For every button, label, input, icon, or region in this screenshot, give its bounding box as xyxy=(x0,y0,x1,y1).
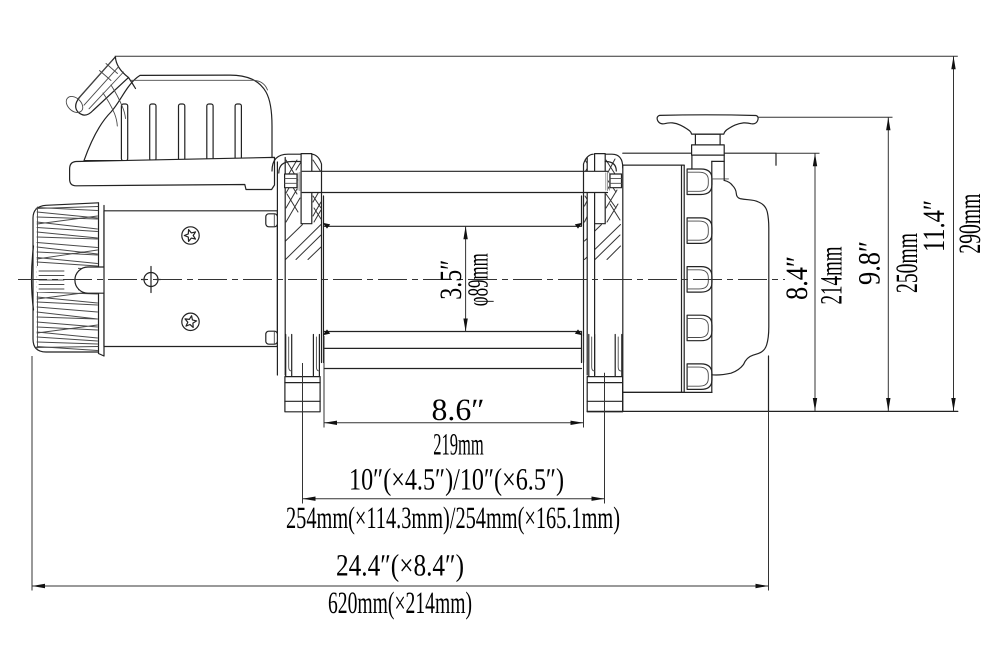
right side plate xyxy=(587,157,594,375)
clutch T-handle neck xyxy=(695,134,720,145)
gearbox cover left edge xyxy=(711,161,713,392)
dim 10in extension lines xyxy=(303,363,605,504)
gearbox lobe 3 xyxy=(687,267,712,293)
center line xyxy=(18,279,785,281)
end cap vent comb xyxy=(37,266,78,292)
left bearing post xyxy=(301,154,312,224)
dim 9.8in line xyxy=(886,117,890,411)
motor end cap outline xyxy=(33,203,99,352)
drum corner arrow bottom-right xyxy=(575,329,583,335)
dim 10in line xyxy=(303,497,605,501)
left end plate hatch xyxy=(286,157,322,260)
left lower rod tab xyxy=(266,331,278,344)
svg-text:254mm(×114.3mm)/254mm(×165.1mm: 254mm(×114.3mm)/254mm(×165.1mm) xyxy=(286,500,620,535)
right drum flange xyxy=(582,154,594,362)
motor housing xyxy=(104,211,277,347)
torx screw lower xyxy=(182,313,199,330)
drum corner arrow top-right xyxy=(575,223,583,229)
dim 3.5in/φ89mm line xyxy=(463,226,467,331)
clutch T-handle stem xyxy=(692,155,724,180)
frame bottom line xyxy=(587,410,958,412)
end cap right rim xyxy=(99,203,105,356)
control box slot 3 xyxy=(179,104,185,161)
end cap bullet tab xyxy=(75,267,105,293)
dim 9.8in extension line xyxy=(758,116,893,118)
center mark xyxy=(142,267,161,293)
right foot block xyxy=(587,377,622,412)
lower cross bar xyxy=(324,368,582,370)
control box slot 2 xyxy=(150,104,156,161)
control box slot 5 xyxy=(235,104,241,161)
right legs xyxy=(589,335,622,377)
gearbox lobe 2 xyxy=(687,218,712,244)
left bracket strap xyxy=(272,154,301,173)
svg-text:11.4″: 11.4″ xyxy=(916,200,951,252)
drum barrel xyxy=(324,226,582,331)
gearbox lobe 5 xyxy=(687,364,712,390)
clutch handle lever xyxy=(63,57,135,126)
left drum flange xyxy=(312,154,324,362)
dim 8.4in line xyxy=(813,153,817,411)
control box dome xyxy=(84,75,272,161)
right tie-rod nut xyxy=(610,174,622,188)
dim 11.4in extension line xyxy=(115,55,958,57)
end cap left bulge xyxy=(32,246,34,310)
gearbox top plate xyxy=(623,153,776,165)
right bearing post xyxy=(595,154,606,224)
svg-text:8.6″: 8.6″ xyxy=(432,392,485,427)
left legs xyxy=(286,335,320,377)
gearbox bottom plate xyxy=(623,356,769,411)
dim 8.4in extension line xyxy=(776,152,820,154)
clutch T-handle bar xyxy=(657,115,758,134)
svg-text:219mm: 219mm xyxy=(433,427,484,462)
right end plate hatch xyxy=(585,159,621,260)
left foot block xyxy=(285,377,320,412)
drum corner arrow bottom-left xyxy=(323,329,331,335)
gearbox lobe inner lines xyxy=(687,172,708,386)
lower tie rod xyxy=(324,347,582,349)
upper tie rod xyxy=(302,171,607,192)
left side plate xyxy=(277,157,285,375)
clutch T-handle collar xyxy=(692,145,725,155)
torx screw upper xyxy=(182,227,199,244)
end cap top band xyxy=(36,207,98,209)
dim 8.6in extension lines xyxy=(324,336,584,428)
gearbox lobe 4 xyxy=(687,315,712,341)
dim 8.6in line xyxy=(324,421,584,425)
dim 24.4in line xyxy=(32,584,769,588)
gearbox cover outline xyxy=(712,161,769,375)
svg-text:214mm: 214mm xyxy=(814,247,849,305)
svg-text:290mm: 290mm xyxy=(952,194,987,254)
dim 24.4in extension lines xyxy=(32,356,769,591)
control box slot 4 xyxy=(207,104,213,161)
left tie-rod nut xyxy=(285,174,297,188)
svg-text:620mm(×214mm): 620mm(×214mm) xyxy=(328,585,472,620)
svg-text:9.8″: 9.8″ xyxy=(852,241,887,285)
gearbox cover step line xyxy=(712,178,729,180)
right bracket strap xyxy=(605,154,623,171)
svg-text:24.4″(×8.4″): 24.4″(×8.4″) xyxy=(336,548,464,583)
control box slot 1 xyxy=(121,104,127,161)
svg-text:φ89mm: φ89mm xyxy=(463,253,495,306)
gearbox core xyxy=(623,165,684,392)
right tie-rod thread xyxy=(606,172,610,191)
gearbox lobe 1 xyxy=(687,169,712,195)
svg-text:8.4″: 8.4″ xyxy=(779,256,814,300)
drum corner arrow top-left xyxy=(323,223,331,229)
left tie-rod thread xyxy=(298,172,302,191)
motor end cap knurl hatch xyxy=(37,208,98,351)
left upper rod tab xyxy=(266,214,278,227)
dim 11.4in line xyxy=(951,56,955,411)
control box base plate xyxy=(70,157,275,189)
end cap inner left edge xyxy=(37,207,39,348)
svg-text:10″(×4.5″)/10″(×6.5″): 10″(×4.5″)/10″(×6.5″) xyxy=(349,462,564,497)
control box lid seam xyxy=(131,80,268,90)
end cap bottom lip xyxy=(36,347,98,348)
